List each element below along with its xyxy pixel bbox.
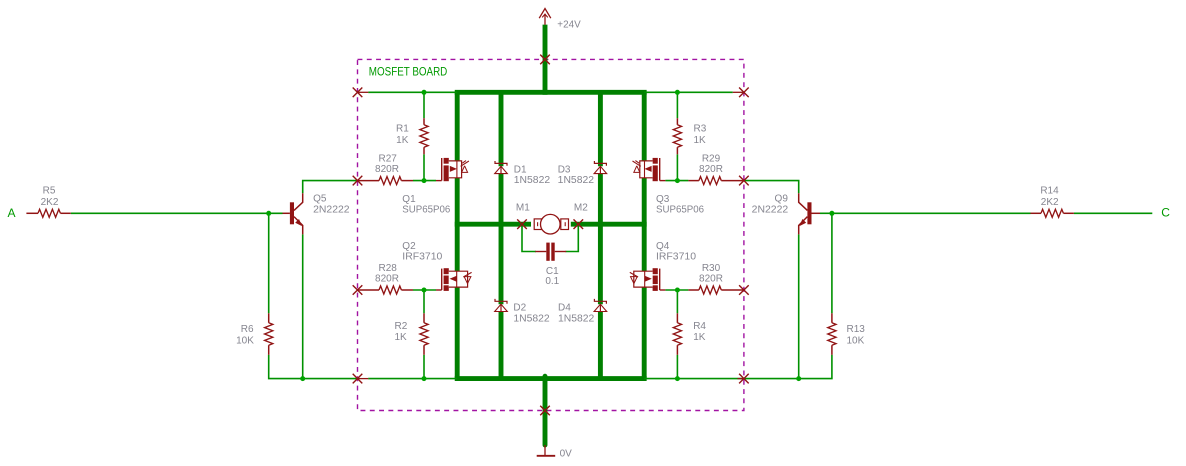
wire motor row right (thick) bbox=[571, 222, 647, 227]
wire R13 bottom row to border bbox=[744, 355, 832, 379]
svg-text:1N5822: 1N5822 bbox=[514, 175, 551, 186]
port cross left gate row upper bbox=[353, 176, 363, 186]
wire R28 to Q2 gate node bbox=[413, 289, 436, 291]
wire R1 top lead bbox=[423, 92, 425, 118]
svg-text:1K: 1K bbox=[396, 135, 409, 146]
node Q4 gate junction bbox=[675, 288, 680, 293]
wire left outer bus segment 2 (Q1 source to Q2 drain) bbox=[455, 178, 460, 271]
node R4 bottom junction bbox=[675, 376, 680, 381]
resistor R5 2K2 bbox=[26, 209, 70, 217]
svg-text:Q4: Q4 bbox=[656, 241, 670, 252]
wire Q5 base lead bbox=[283, 212, 290, 214]
resistor R27 820R bbox=[358, 177, 414, 185]
port cross top-left bbox=[353, 88, 363, 98]
svg-text:SUP65P06: SUP65P06 bbox=[656, 205, 704, 216]
svg-text:2K2: 2K2 bbox=[41, 197, 59, 208]
diode D3 schottky bbox=[594, 161, 607, 174]
wire R4 top bbox=[676, 290, 678, 313]
wire 0V ground stub (thick) bbox=[543, 376, 548, 445]
pin label M2 bbox=[574, 202, 588, 213]
transistor Q4 N-MOSFET bbox=[630, 268, 666, 291]
capacitor C1 bbox=[535, 243, 566, 261]
value label Q3 SUP65P06 bbox=[656, 194, 704, 216]
junction cross motor right bbox=[574, 219, 584, 229]
port cross bottom-left bbox=[353, 374, 363, 384]
svg-text:R1: R1 bbox=[396, 124, 409, 135]
port stub top-left bbox=[358, 91, 369, 93]
wire Q5 collector to border bbox=[303, 181, 358, 194]
port cross 0V bbox=[540, 406, 550, 416]
svg-text:820R: 820R bbox=[699, 164, 723, 175]
wire Q9 collector to border bbox=[744, 181, 799, 194]
value label D2 1N5822 bbox=[513, 303, 550, 325]
svg-text:C: C bbox=[1161, 205, 1170, 219]
wire right outer bus segment 2 (Q3 source to Q4 drain) bbox=[642, 178, 647, 271]
wire R2 bottom bbox=[423, 355, 425, 379]
wire C node to R13 bbox=[831, 213, 833, 313]
value label Q4 IRF3710 bbox=[656, 241, 696, 263]
wire bottom 0V bus (thick) bbox=[455, 376, 647, 381]
node Q1 gate junction bbox=[422, 178, 427, 183]
value label D3 1N5822 bbox=[558, 164, 595, 186]
port cross top-right bbox=[739, 88, 749, 98]
svg-text:1N5822: 1N5822 bbox=[558, 175, 595, 186]
wire Q9 base green bbox=[820, 212, 832, 214]
svg-text:1K: 1K bbox=[693, 332, 706, 343]
value label D1 1N5822 bbox=[514, 164, 551, 186]
value label R14 2K2 bbox=[1040, 186, 1059, 208]
resistor R28 820R bbox=[358, 286, 414, 294]
wire Q5 emitter down bbox=[302, 234, 304, 378]
port stub bottom-left bbox=[358, 378, 369, 380]
transistor Q1 P-MOSFET bbox=[436, 158, 469, 181]
motor terminals M1/M2 bbox=[534, 214, 568, 234]
wire right inner bus segment 2 (D3 to D4) bbox=[598, 174, 603, 305]
resistor R2 1K bbox=[420, 313, 428, 355]
value label Q1 SUP65P06 bbox=[402, 194, 450, 216]
node A label bbox=[8, 206, 16, 220]
wire left inner bus segment 3 (D2 to bottom) bbox=[499, 312, 504, 379]
transistor Q9 NPN bbox=[799, 193, 812, 234]
wire right outer bus segment 1 (Q3 drain) bbox=[642, 92, 647, 161]
svg-text:820R: 820R bbox=[375, 273, 399, 284]
node A junction bbox=[266, 211, 271, 216]
resistor R3 1K bbox=[673, 118, 681, 154]
port cross right gate row lower bbox=[739, 285, 749, 295]
node C label bbox=[1161, 205, 1170, 219]
node Q5 emitter junction bbox=[300, 376, 305, 381]
value label Q2 IRF3710 bbox=[402, 241, 442, 263]
value label R28 820R bbox=[375, 263, 399, 284]
wire R6 bottom row to border bbox=[269, 355, 358, 379]
wire left inner bus segment 2 (D1 to D2) bbox=[499, 174, 504, 305]
wire right inner bus segment 3 (D4 to bottom) bbox=[598, 312, 603, 379]
node C junction bbox=[829, 211, 834, 216]
svg-text:1N5822: 1N5822 bbox=[558, 314, 595, 325]
resistor R4 1K bbox=[673, 313, 681, 355]
svg-text:IRF3710: IRF3710 bbox=[402, 252, 442, 263]
wire R1 bottom to node bbox=[423, 154, 425, 180]
svg-text:1K: 1K bbox=[395, 332, 408, 343]
svg-text:A: A bbox=[8, 206, 16, 220]
net label 0V bbox=[560, 448, 573, 459]
wire node C row bbox=[832, 212, 1031, 214]
svg-text:D2: D2 bbox=[513, 303, 526, 314]
module title MOSFET BOARD bbox=[369, 67, 448, 79]
svg-text:M2: M2 bbox=[574, 202, 588, 213]
svg-text:R2: R2 bbox=[395, 321, 408, 332]
svg-text:IRF3710: IRF3710 bbox=[656, 252, 696, 263]
resistor R30 820R bbox=[688, 286, 744, 294]
svg-text:D3: D3 bbox=[558, 164, 571, 175]
svg-text:+24V: +24V bbox=[557, 19, 581, 30]
wire top row left (border to bus) bbox=[368, 91, 457, 93]
wire R3 top lead bbox=[676, 92, 678, 118]
transistor Q2 N-MOSFET bbox=[436, 268, 472, 291]
svg-text:D1: D1 bbox=[514, 164, 527, 175]
value label R1 1K bbox=[396, 124, 409, 147]
svg-text:Q5: Q5 bbox=[313, 194, 327, 205]
wire R27 to Q1 gate node bbox=[413, 180, 436, 182]
svg-text:820R: 820R bbox=[375, 164, 399, 175]
diode D2 schottky bbox=[495, 299, 508, 312]
resistor R1 1K bbox=[420, 118, 428, 154]
net label +24V bbox=[557, 19, 581, 30]
svg-text:MOSFET BOARD: MOSFET BOARD bbox=[369, 67, 448, 79]
port cross left gate row lower bbox=[353, 285, 363, 295]
svg-text:2N2222: 2N2222 bbox=[752, 205, 789, 216]
module boundary dashed frame bbox=[358, 59, 744, 410]
svg-text:0V: 0V bbox=[560, 448, 573, 459]
wire Q9 base lead bbox=[812, 212, 821, 214]
svg-text:Q9: Q9 bbox=[775, 194, 789, 205]
wire top row right (bus to border) bbox=[644, 91, 733, 93]
svg-text:820R: 820R bbox=[699, 273, 723, 284]
wire Q9 emitter down bbox=[798, 234, 800, 378]
resistor R6 10K bbox=[265, 313, 273, 355]
value label R2 1K bbox=[395, 321, 408, 343]
svg-text:Q1: Q1 bbox=[402, 194, 416, 205]
supply symbol +24V arrow bbox=[539, 9, 551, 25]
svg-text:10K: 10K bbox=[847, 336, 865, 347]
value label R3 1K bbox=[694, 124, 707, 147]
value label R29 820R bbox=[699, 154, 723, 175]
svg-text:R5: R5 bbox=[43, 186, 56, 197]
node Q3 gate junction bbox=[675, 178, 680, 183]
svg-text:D4: D4 bbox=[558, 303, 571, 314]
wire bottom row right inside (bus to border) bbox=[644, 378, 744, 380]
wire motor row left (thick) bbox=[455, 222, 531, 227]
wire right outer bus segment 3 (Q4 source to bottom) bbox=[642, 287, 647, 379]
svg-text:SUP65P06: SUP65P06 bbox=[402, 205, 450, 216]
wire R4 bottom bbox=[676, 355, 678, 379]
resistor R29 820R bbox=[688, 177, 744, 185]
value label C1 0.1 bbox=[545, 266, 559, 287]
pin label M1 bbox=[516, 202, 530, 213]
wire C row end bbox=[1074, 212, 1152, 214]
diode D1 schottky bbox=[495, 161, 508, 174]
svg-text:R3: R3 bbox=[694, 124, 707, 135]
wire R30 to Q4 gate node bbox=[665, 289, 688, 291]
node R2 bottom junction bbox=[422, 376, 427, 381]
svg-text:0.1: 0.1 bbox=[545, 276, 559, 287]
svg-text:1K: 1K bbox=[694, 135, 707, 146]
wire top +24V bus (thick) bbox=[455, 90, 647, 95]
svg-text:R14: R14 bbox=[1040, 186, 1059, 197]
svg-text:2K2: 2K2 bbox=[1041, 197, 1059, 208]
wire left outer bus segment 3 (Q2 source to bottom) bbox=[455, 287, 460, 379]
wire C1 right tap bbox=[566, 226, 579, 252]
value label Q5 2N2222 bbox=[313, 194, 350, 216]
svg-text:Q3: Q3 bbox=[656, 194, 670, 205]
node Q9 emitter junction bbox=[796, 376, 801, 381]
wire A node to R6 bbox=[268, 213, 270, 313]
transistor Q3 P-MOSFET bbox=[633, 158, 666, 181]
wire left inner bus segment 1 (to D1) bbox=[499, 92, 504, 166]
transistor Q5 NPN bbox=[290, 193, 303, 234]
wire R3 bottom to node bbox=[676, 154, 678, 180]
node R3 top junction bbox=[675, 90, 680, 95]
resistor R13 10K bbox=[828, 313, 836, 355]
wire bottom row left inside (border to bus) bbox=[368, 378, 457, 380]
ground symbol 0V bbox=[537, 445, 556, 456]
value label Q9 2N2222 bbox=[752, 194, 789, 216]
diode D4 schottky bbox=[594, 299, 607, 312]
wire left outer bus segment 1 (Q1 drain) bbox=[455, 92, 460, 161]
svg-text:R4: R4 bbox=[693, 321, 706, 332]
node R1 top junction bbox=[422, 90, 427, 95]
svg-text:Q2: Q2 bbox=[402, 241, 416, 252]
port stub top-right bbox=[733, 91, 744, 93]
svg-text:M1: M1 bbox=[516, 202, 530, 213]
svg-text:R6: R6 bbox=[241, 324, 254, 335]
wire R2 top bbox=[423, 290, 425, 313]
port stub bottom-right bbox=[738, 378, 744, 380]
svg-text:10K: 10K bbox=[236, 336, 254, 347]
port cross right gate row upper bbox=[739, 176, 749, 186]
wire node A row bbox=[71, 212, 283, 214]
wire C1 left tap bbox=[522, 226, 536, 252]
svg-text:R13: R13 bbox=[847, 324, 866, 335]
wire R29 to Q3 gate node bbox=[665, 180, 688, 182]
value label R13 10K bbox=[847, 324, 866, 347]
value label R5 2K2 bbox=[41, 186, 59, 208]
junction cross motor left bbox=[517, 219, 527, 229]
wire right inner bus segment 1 (to D3) bbox=[598, 92, 603, 166]
port cross +24V bbox=[540, 55, 550, 65]
value label R4 1K bbox=[693, 321, 706, 343]
value label R30 820R bbox=[699, 263, 723, 284]
svg-text:2N2222: 2N2222 bbox=[313, 205, 350, 216]
wire +24V supply stub (thick) bbox=[543, 25, 548, 95]
node Q2 gate junction bbox=[422, 288, 427, 293]
value label R6 10K bbox=[236, 324, 254, 347]
svg-text:1N5822: 1N5822 bbox=[513, 314, 550, 325]
value label R27 820R bbox=[375, 154, 399, 175]
resistor R14 2K2 bbox=[1031, 209, 1074, 217]
port cross bottom-right bbox=[739, 374, 749, 384]
value label D4 1N5822 bbox=[558, 303, 595, 325]
